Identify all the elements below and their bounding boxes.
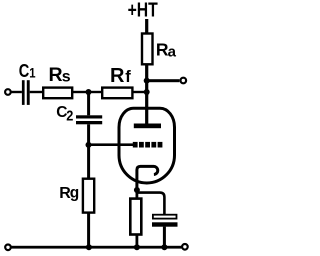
wire Ra down to anode: [145, 64, 148, 126]
junction Rf/anode: [144, 89, 150, 95]
wire Rs to node A: [72, 91, 101, 93]
junction Ck/bottom rail: [161, 244, 167, 250]
anode plate bar: [134, 124, 161, 129]
svg-text:a: a: [168, 43, 177, 60]
resistor Rg: [83, 179, 94, 213]
svg-text:+HT: +HT: [128, 0, 158, 21]
svg-text:f: f: [125, 67, 131, 86]
junction Rk/bottom rail: [134, 244, 140, 250]
svg-text:R: R: [110, 65, 125, 87]
wire Rk to bottom rail: [136, 235, 139, 248]
cathode capacitor Ck top plate: [153, 215, 177, 219]
resistor Rs: [43, 88, 72, 99]
svg-text:1: 1: [29, 64, 35, 81]
bottom right terminal: [182, 244, 188, 250]
wire cathode node to Rk: [136, 190, 139, 199]
grid dashes: [133, 142, 163, 148]
junction node A: [86, 89, 92, 95]
wire anode output tap: [146, 79, 179, 82]
wire C2 to grid node: [87, 124, 90, 146]
wire Rf to anode line: [132, 91, 147, 93]
wire Rg to bottom rail: [87, 213, 90, 248]
input terminal: [5, 89, 11, 95]
triode V1 envelope: [119, 108, 175, 183]
cathode capacitor Ck bottom plate: [152, 222, 178, 226]
label Rf: [110, 65, 131, 87]
wire input to C1: [11, 91, 22, 93]
junction grid node: [86, 142, 92, 148]
cathode resistor Rk: [130, 199, 141, 235]
wire cathode to Ck: [137, 193, 165, 215]
wire C1 to Rs: [30, 91, 42, 93]
bottom rail wire: [11, 246, 182, 249]
junction anode/output: [144, 78, 150, 84]
bottom left terminal: [5, 245, 11, 251]
svg-text:g: g: [70, 185, 79, 202]
wire grid node to Rg: [87, 146, 90, 177]
junction Rg/bottom rail: [86, 244, 92, 250]
svg-text:R: R: [49, 64, 63, 86]
wire grid lead: [89, 143, 134, 146]
label Rg: [59, 185, 79, 202]
capacitor C1: [22, 80, 30, 105]
capacitor C2: [76, 115, 102, 124]
svg-text:C: C: [19, 60, 30, 81]
label Ra: [156, 40, 177, 61]
label Rs: [49, 64, 71, 86]
label C1: [19, 60, 36, 81]
wire HT down to Ra: [145, 19, 148, 34]
svg-text:s: s: [62, 69, 71, 86]
label C2: [56, 104, 73, 124]
resistor Rf: [102, 88, 132, 99]
svg-text:2: 2: [66, 106, 73, 123]
output terminal top right: [181, 78, 187, 84]
resistor Ra: [142, 34, 153, 65]
junction cathode node: [134, 187, 140, 193]
wire node A down to C2: [87, 92, 90, 115]
cathode: [137, 166, 158, 191]
wire Ck to bottom rail: [163, 227, 166, 248]
